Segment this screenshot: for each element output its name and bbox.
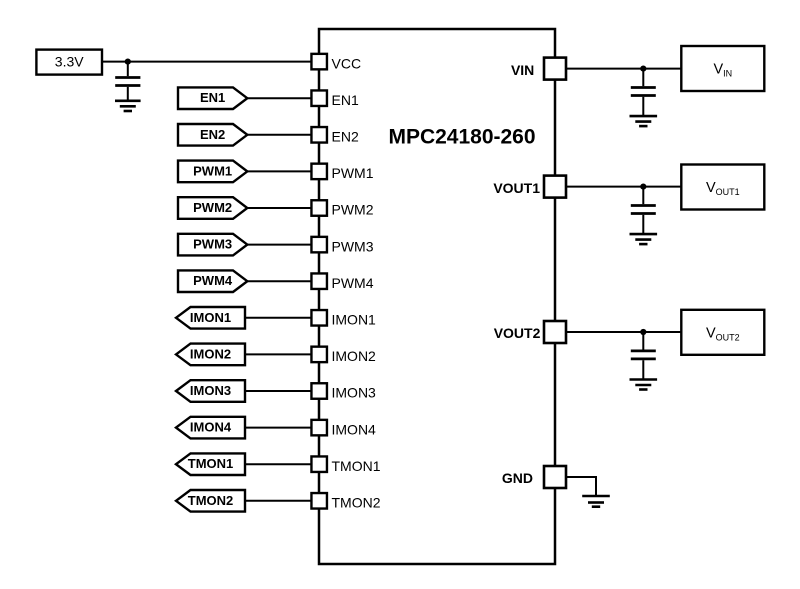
ground symbol below CVOUT1: [630, 234, 658, 244]
svg-text:IMON4: IMON4: [332, 421, 377, 437]
capacitor CVIN (on VIN net): [631, 69, 656, 116]
pin VIN: [544, 58, 566, 80]
signal flag PWM2 (input, points right): [178, 197, 247, 219]
ground symbol below C1: [115, 101, 141, 111]
voltage source 3.3V: [36, 50, 102, 75]
svg-text:IMON1: IMON1: [190, 310, 231, 325]
pin PWM1: [311, 164, 327, 180]
signal flag IMON2 (output, points left): [176, 344, 245, 366]
signal flag PWM1 (input, points right): [178, 161, 247, 183]
capacitor CVOUT1 (on VOUT1 net): [631, 187, 656, 234]
signal flag TMON2 (output, points left): [176, 490, 245, 512]
wire PWM2 flag to pin PWM2: [246, 207, 311, 209]
svg-text:IMON1: IMON1: [332, 312, 377, 328]
svg-text:PWM1: PWM1: [193, 163, 232, 178]
svg-text:TMON2: TMON2: [188, 493, 234, 508]
pin IMON1: [311, 310, 327, 326]
svg-text:EN1: EN1: [200, 90, 225, 105]
wire IMON4 flag to pin IMON4: [244, 427, 311, 429]
ground symbol below CVIN: [630, 116, 658, 126]
svg-text:3.3V: 3.3V: [55, 54, 84, 70]
wire pin VIN to external box: [566, 68, 682, 70]
pin PWM3: [311, 237, 327, 253]
wire PWM4 flag to pin PWM4: [246, 280, 311, 282]
pin TMON2: [311, 493, 327, 509]
junction dot on VIN net: [640, 66, 646, 72]
wire PWM3 flag to pin PWM3: [246, 244, 311, 246]
pin EN1: [311, 90, 327, 106]
svg-text:TMON1: TMON1: [188, 456, 234, 471]
svg-text:TMON2: TMON2: [332, 495, 381, 511]
svg-text:EN2: EN2: [332, 129, 359, 145]
pin IMON3: [311, 383, 327, 399]
pin VOUT1: [544, 176, 566, 198]
junction dot on VCC net: [125, 59, 131, 65]
svg-text:IMON4: IMON4: [190, 420, 232, 435]
junction dot on VOUT2 net: [640, 329, 646, 335]
signal flag TMON1 (output, points left): [176, 453, 245, 475]
wire PWM1 flag to pin PWM1: [246, 170, 311, 172]
svg-text:PWM4: PWM4: [193, 273, 233, 288]
signal flag PWM4 (input, points right): [178, 270, 247, 292]
wire IMON2 flag to pin IMON2: [244, 353, 311, 355]
svg-text:IMON2: IMON2: [332, 348, 377, 364]
svg-text:TMON1: TMON1: [332, 458, 381, 474]
svg-text:PWM4: PWM4: [332, 275, 374, 291]
pin TMON1: [311, 456, 327, 472]
svg-text:IMON2: IMON2: [190, 346, 231, 361]
wire GND pin to ground: [566, 477, 596, 496]
wire 3.3V to VCC pin: [102, 61, 311, 63]
signal flag EN1 (input, points right): [178, 87, 247, 109]
svg-text:PWM3: PWM3: [332, 238, 374, 254]
signal flag IMON3 (output, points left): [176, 380, 245, 402]
signal flag EN2 (input, points right): [178, 124, 247, 146]
ground symbol at GND pin: [582, 496, 610, 507]
svg-text:MPC24180-260: MPC24180-260: [388, 125, 535, 148]
capacitor C1 (VCC decoupling): [115, 62, 140, 100]
svg-text:PWM3: PWM3: [193, 237, 232, 252]
svg-text:VCC: VCC: [332, 55, 362, 71]
wire TMON2 flag to pin TMON2: [244, 500, 311, 502]
svg-text:VOUT2: VOUT2: [494, 325, 541, 341]
svg-text:IMON3: IMON3: [190, 383, 231, 398]
capacitor CVOUT2 (on VOUT2 net): [631, 332, 656, 379]
pin VOUT2: [544, 321, 566, 343]
wire EN1 flag to pin EN1: [246, 97, 311, 99]
pin PWM2: [311, 200, 327, 216]
signal flag PWM3 (input, points right): [178, 234, 247, 256]
pin PWM4: [311, 273, 327, 289]
svg-text:EN2: EN2: [200, 127, 225, 142]
wire EN2 flag to pin EN2: [246, 134, 311, 136]
wire IMON1 flag to pin IMON1: [244, 317, 311, 319]
svg-text:EN1: EN1: [332, 92, 359, 108]
svg-text:GND: GND: [502, 470, 533, 486]
pin GND: [544, 466, 566, 488]
wire IMON3 flag to pin IMON3: [244, 390, 311, 392]
pin IMON2: [311, 347, 327, 363]
signal flag IMON4 (output, points left): [176, 417, 245, 439]
svg-text:VIN: VIN: [511, 62, 534, 78]
svg-text:VOUT1: VOUT1: [493, 180, 540, 196]
IC U1 body MPC24180-260: [319, 29, 555, 564]
wire pin VOUT1 to external box: [566, 186, 682, 188]
svg-text:PWM2: PWM2: [332, 202, 374, 218]
external block VIN box: [681, 46, 764, 91]
wire TMON1 flag to pin TMON1: [244, 463, 311, 465]
signal flag IMON1 (output, points left): [176, 307, 245, 329]
ground symbol below CVOUT2: [630, 380, 658, 390]
junction dot on VOUT1 net: [640, 184, 646, 190]
pin VCC: [311, 54, 327, 70]
svg-text:PWM1: PWM1: [332, 165, 374, 181]
external block VOUT2 box: [681, 310, 764, 355]
svg-text:IMON3: IMON3: [332, 385, 377, 401]
svg-text:PWM2: PWM2: [193, 200, 232, 215]
external block VOUT1 box: [681, 165, 764, 210]
pin IMON4: [311, 420, 327, 436]
wire pin VOUT2 to external box: [566, 331, 682, 333]
pin EN2: [311, 127, 327, 143]
